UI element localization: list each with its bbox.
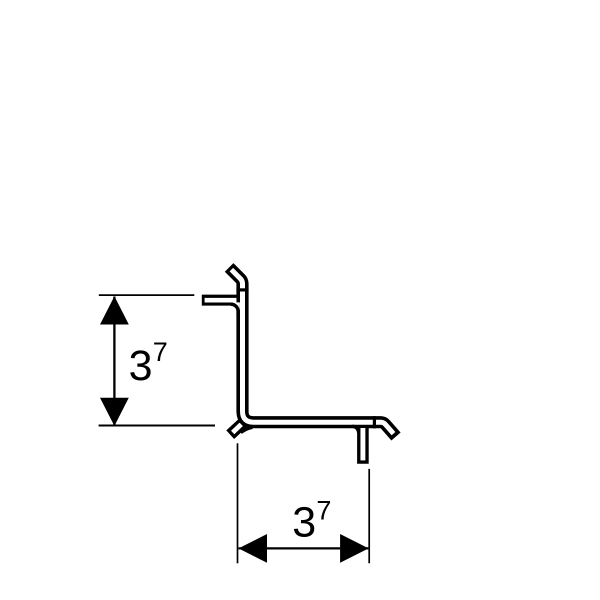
dim V bottom extension line	[99, 425, 215, 427]
right tab white core	[360, 428, 365, 460]
dim H left extension line	[237, 443, 239, 563]
left tab white core	[205, 298, 237, 303]
svg-text:3: 3	[292, 499, 316, 547]
profile strip core (white)	[231, 270, 393, 434]
seam right	[373, 416, 376, 428]
left tab fillet arc	[231, 304, 239, 312]
dim H arrow right	[340, 534, 369, 563]
svg-text:7: 7	[153, 337, 168, 367]
profile strip outer (black)	[229, 267, 396, 436]
left tab fillet wedge white	[231, 302, 240, 311]
dim H line	[239, 547, 369, 549]
dim V arrow up	[100, 296, 129, 324]
dim V line	[113, 297, 115, 426]
dim V arrow down	[100, 398, 129, 426]
corner tab lower fillet	[241, 427, 253, 432]
dim V top extension line	[99, 294, 195, 296]
dim H right extension line	[368, 469, 370, 563]
left tab fillet wall patch	[236, 311, 240, 319]
left tab black	[202, 295, 239, 306]
dim H arrow left	[239, 534, 268, 563]
svg-text:7: 7	[316, 496, 331, 526]
corner diagonal tab black	[230, 423, 243, 435]
seam top	[236, 288, 248, 291]
right hanging tab black	[357, 425, 369, 464]
corner tab white core	[233, 424, 242, 432]
right tab fillet arc	[352, 426, 358, 432]
svg-text:3: 3	[129, 342, 153, 390]
